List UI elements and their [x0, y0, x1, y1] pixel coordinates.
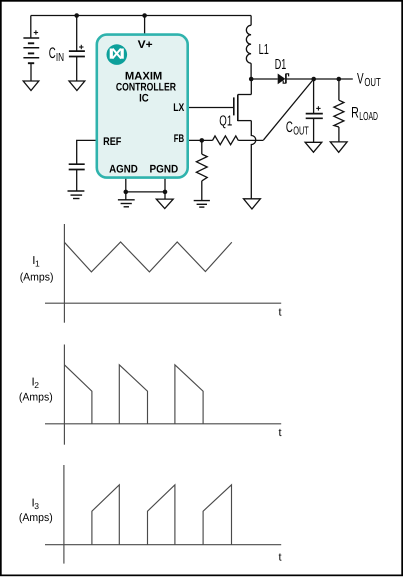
svg-text:2: 2 — [34, 380, 39, 390]
wire: L1 bottom lead — [250, 63, 252, 79]
wire: Q1 source down with hop over FB wire — [251, 121, 256, 199]
wire: C_OUT bottom lead — [313, 118, 315, 142]
wire: divider resistor top lead — [201, 140, 203, 154]
capacitor C_REF — [69, 164, 85, 169]
capacitor C_OUT — [306, 106, 323, 118]
waveform plot 2: diode current I2 — [45, 345, 281, 445]
wire: diagonal feedback to V_OUT node — [264, 79, 314, 140]
node: FB divider junction — [200, 138, 205, 143]
axis: I2 horizontal (t) — [45, 423, 281, 425]
resistor R_divider (to ground) — [196, 154, 207, 181]
svg-text:V+: V+ — [138, 39, 153, 51]
wire: C_IN top lead — [76, 16, 78, 52]
wire: D1 cathode to V_OUT — [286, 78, 353, 80]
ground (Q1 source, open triangle) — [244, 199, 261, 209]
wire: C_OUT top lead — [313, 79, 315, 114]
resistor R_LOAD — [334, 100, 344, 127]
node: L1/D1/Q1 drain junction — [249, 77, 254, 82]
waveform I3 ramps — [92, 485, 232, 545]
battery V_IN — [23, 30, 39, 63]
ground (C_REF, earth style) — [68, 191, 85, 199]
svg-text:REF: REF — [103, 136, 122, 148]
svg-text:1: 1 — [35, 259, 40, 269]
svg-text:OUT: OUT — [364, 76, 380, 89]
waveform I2 ramps — [64, 365, 203, 424]
wire: AGND-PGND link — [126, 191, 165, 193]
ground (AGND, earth style) — [118, 200, 135, 207]
wire: rail corner down to L1 — [250, 16, 252, 26]
node: PGND junction — [163, 190, 168, 195]
svg-text:FB: FB — [174, 133, 184, 145]
wire: battery top lead — [30, 16, 32, 39]
node: V+ junction on rail — [142, 13, 147, 18]
ground (C_IN, open triangle) — [69, 81, 85, 91]
axis: I1 vertical — [63, 224, 65, 323]
svg-text:(Amps): (Amps) — [20, 272, 54, 284]
wire: REF pin wire — [77, 140, 97, 164]
ground (C_OUT, open triangle) — [305, 142, 322, 152]
waveform plot 3: switch current I3 — [45, 465, 281, 564]
svg-text:(Amps): (Amps) — [19, 512, 53, 524]
wire: PGND lead — [164, 178, 166, 200]
svg-text:IC: IC — [139, 92, 149, 104]
svg-text:t: t — [279, 427, 282, 439]
transistor Q1 (N-MOSFET) — [234, 95, 252, 122]
node: C_IN top junction — [74, 13, 79, 18]
wire: FB pin wire — [188, 139, 213, 141]
svg-text:OUT: OUT — [293, 124, 309, 137]
svg-text:L1: L1 — [259, 42, 269, 58]
wire: V+ lead into IC — [144, 16, 146, 35]
wire: LX to Q1 gate — [188, 107, 234, 109]
svg-text:R: R — [351, 105, 359, 122]
svg-text:Q1: Q1 — [219, 114, 232, 130]
waveform plot 1: inductor current I1 — [45, 224, 281, 323]
axis: I1 horizontal (t) — [45, 302, 281, 304]
wire: top supply rail — [31, 15, 251, 17]
node: V_OUT / C_OUT junction — [311, 77, 316, 82]
svg-text:(Amps): (Amps) — [19, 391, 53, 403]
ground (divider, earth style) — [194, 201, 210, 208]
wire: R_LOAD bottom lead — [338, 127, 340, 142]
svg-text:C: C — [286, 119, 293, 136]
inductor L1 — [246, 25, 251, 63]
resistor R_FB (horizontal feedback resistor) — [213, 136, 239, 145]
svg-text:D1: D1 — [275, 57, 287, 73]
wire: R_LOAD top lead — [338, 79, 340, 100]
wire: resistor to diagonal — [238, 139, 263, 141]
wire: divider resistor bottom lead — [201, 181, 203, 201]
svg-text:LOAD: LOAD — [359, 110, 378, 123]
ground (battery, open triangle) — [23, 81, 39, 91]
Maxim logo — [107, 44, 128, 65]
svg-text:AGND: AGND — [109, 163, 138, 175]
svg-text:t: t — [279, 307, 282, 319]
svg-text:3: 3 — [34, 501, 39, 511]
node: R_LOAD junction — [337, 77, 342, 82]
wire: C_REF bottom lead — [76, 170, 78, 192]
axis: I2 vertical — [63, 345, 65, 445]
ground (R_LOAD, open triangle) — [330, 142, 347, 152]
svg-text:LX: LX — [173, 102, 185, 114]
node: AGND junction — [124, 190, 129, 195]
axis: I3 vertical — [63, 465, 65, 564]
diode D1 (Schottky) — [278, 74, 289, 85]
capacitor C_IN — [69, 45, 85, 57]
ground (PGND, open triangle) — [156, 199, 173, 208]
svg-text:PGND: PGND — [150, 163, 179, 175]
axis: I3 horizontal (t) — [45, 544, 281, 546]
wire: D1 anode wire — [251, 78, 278, 80]
svg-text:IN: IN — [56, 51, 64, 64]
wire: AGND lead — [125, 178, 127, 200]
wire: Q1 drain up to node — [250, 79, 252, 95]
svg-text:V: V — [357, 70, 364, 87]
wire: battery bottom lead — [30, 63, 32, 81]
svg-text:t: t — [279, 552, 282, 564]
wire: C_IN bottom lead — [76, 57, 78, 82]
op-amp U1: MAXIM CONTROLLER IC box — [97, 35, 188, 178]
waveform I1 triangle — [64, 242, 231, 272]
svg-text:C: C — [49, 45, 56, 62]
